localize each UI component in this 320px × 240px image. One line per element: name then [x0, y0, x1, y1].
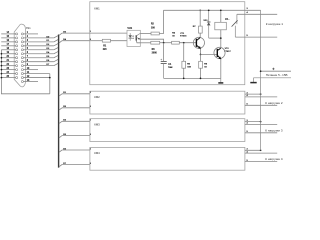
diode VD1 label: [203, 20, 208, 22]
svg-text:VT1: VT1: [180, 33, 185, 35]
module KM1 pin 5 load wire: [235, 35, 277, 37]
svg-text:220: 220: [103, 49, 108, 51]
bus exit wire D1: [59, 92, 90, 96]
resistor R4 labels: [172, 32, 176, 38]
ground bus wire (pins 18-25 loop under connector): [1, 50, 50, 94]
svg-text:КМ4: КМ4: [94, 151, 100, 155]
power label Pitanie 5...15V: [266, 73, 288, 77]
svg-text:К нагрузке 4: К нагрузке 4: [265, 157, 283, 161]
svg-text:R5: R5: [187, 64, 191, 66]
module KM2 label: [94, 95, 100, 99]
load label K nagruzke 2: [265, 101, 283, 105]
wire XS1 pin 15 with pin number: [1, 36, 15, 38]
wire R6 to bottom rail: [200, 68, 202, 78]
wire R7 to VT1 collector: [199, 33, 201, 37]
svg-text:VT2: VT2: [225, 48, 230, 50]
svg-text:К нагрузке 2: К нагрузке 2: [265, 101, 283, 105]
capacitor C1: [161, 59, 167, 79]
bus exit wire D2: [59, 120, 90, 124]
resistor R7 label: [193, 26, 197, 28]
relay coil K1 label: [225, 18, 228, 21]
svg-text:К нагрузке 1: К нагрузке 1: [266, 22, 284, 26]
resistor R5 labels: [187, 64, 191, 69]
resistor R6: [199, 61, 203, 68]
phototransistor inside VU1 (with base lead): [136, 34, 140, 43]
wire R4 to VT1 base: [179, 42, 196, 44]
wire VD1 to VT2 collector node: [209, 37, 222, 39]
transistor VT2 labels: [224, 48, 231, 53]
diode VD1 (flyback): [207, 9, 211, 38]
wire XS1 pin 21 with pin number: [1, 60, 15, 62]
svg-text:10К: 10К: [151, 27, 156, 29]
wire XS1 pin 23 with pin number: [1, 68, 15, 70]
wire XS1 pin 7 with pin number: [23, 55, 58, 58]
bus exit wire D4: [59, 38, 90, 43]
wire XS1 pin 9 with pin number: [23, 63, 58, 66]
svg-text:10К: 10К: [187, 67, 191, 69]
relay K1 contact fixed post: [236, 14, 238, 24]
connector XS1 right pin circles (pins 1-13): [21, 33, 23, 83]
svg-text:Питание 5...15В: Питание 5...15В: [266, 73, 288, 77]
wire XS1 pin 5 with pin number: [23, 47, 58, 50]
connector XS1 body (DB25 shell): [14, 24, 25, 87]
resistor R7: [199, 26, 203, 33]
wire node B to R5: [183, 43, 185, 62]
module KM4 outline: [90, 147, 245, 170]
module KM3 label: [94, 122, 100, 126]
module KM4 label: [94, 151, 100, 155]
wire XS1 pin 2 with pin number: [23, 36, 58, 39]
wire XS1 pin 3 with pin number: [23, 40, 58, 43]
resistor R4: [172, 41, 180, 44]
svg-text:R4: R4: [172, 32, 176, 35]
wire XS1 pin 4 with pin number: [23, 43, 58, 46]
bus exit wire D6: [59, 134, 90, 138]
wire KM1 pin1 to optocoupler: [90, 32, 127, 34]
load label K nagruzke 1: [266, 22, 284, 26]
power bus (+) vertical: [260, 10, 262, 150]
wire VU1 collector to R2: [140, 33, 151, 35]
svg-text:КМ1: КМ1: [94, 7, 100, 11]
LED inside optocoupler VU1: [129, 33, 132, 41]
light arrows inside VU1: [132, 35, 135, 39]
wire VU1 emitter to node A: [140, 39, 164, 43]
wire XS1 pin 20 with pin number: [1, 56, 15, 58]
power + sign: [272, 68, 274, 70]
wire VT2 collector up: [220, 38, 222, 48]
wire XS1 pin 6 with pin number: [23, 51, 58, 54]
module KM1 (detailed) outline: [90, 2, 245, 85]
wire R3 to node A: [160, 42, 172, 44]
transistor VT1 (KT315): [193, 37, 204, 49]
resistor R3: [151, 41, 160, 44]
module KM4 pin 3 wire to power bus: [245, 149, 262, 152]
wire XS1 pin 22 with pin number: [1, 64, 15, 66]
svg-text:К1: К1: [225, 18, 228, 21]
module KM4 pin 4 load wire: [245, 150, 277, 153]
resistor R3 labels: [152, 49, 158, 55]
wire VT2 emitter to bottom rail: [220, 59, 222, 79]
module KM4 left pin numbers: [90, 148, 92, 165]
wire XS1 pin 25 with pin number: [1, 76, 15, 78]
connector XS1 left pin circles (pins 14-25): [16, 33, 18, 79]
svg-text:2: 2: [90, 106, 92, 108]
svg-text:XS1: XS1: [26, 27, 31, 30]
optocoupler VU1 label: [127, 27, 132, 30]
node C junction dot (emitter/R6/VT2 base): [200, 54, 202, 56]
wire XS1 pin 18 with pin number: [1, 48, 15, 50]
connector XS1 label: [26, 27, 31, 30]
module KM1 left pin numbers: [90, 31, 92, 41]
bus exit wire D0: [59, 31, 90, 35]
wire XS1 pin 19 with pin number: [1, 52, 15, 54]
svg-text:R1: R1: [103, 46, 107, 48]
svg-text:К нагрузке 3: К нагрузке 3: [265, 129, 283, 133]
svg-text:1: 1: [90, 92, 92, 94]
wire XS1 pin 12 with pin number: [23, 76, 50, 79]
svg-text:С1: С1: [168, 64, 172, 66]
module KM2 outline: [90, 91, 245, 114]
svg-text:4: 4: [247, 11, 249, 14]
transistor VT2 (KT817): [214, 47, 225, 59]
svg-text:КМ2: КМ2: [94, 95, 100, 99]
load label K nagruzke 3: [265, 129, 283, 133]
wire node C to R6: [200, 55, 202, 62]
svg-text:VU1: VU1: [127, 27, 132, 30]
transistor VT1 labels: [180, 33, 187, 38]
wire XS1 pin 13 with pin number: [23, 80, 38, 82]
power - input wire: [254, 77, 292, 79]
module KM2 pin 3 wire to power bus: [245, 92, 262, 95]
wire node C to VT2 base: [201, 54, 218, 56]
junction dots on left ground bus: [1, 53, 3, 79]
resistor R2 labels: [151, 24, 156, 30]
wire XS1 pin 8 with pin number: [23, 59, 58, 62]
bottom rail inside KM1: [164, 78, 221, 80]
wire R5 to bottom rail: [183, 68, 185, 78]
relay K1 contact lower post: [234, 26, 236, 37]
svg-text:3: 3: [247, 8, 249, 10]
svg-text:1мк: 1мк: [168, 67, 173, 69]
module KM3 pin 4 load wire: [245, 122, 277, 125]
bus exit wire D7: [59, 163, 90, 167]
resistor R1: [102, 39, 110, 42]
ground symbol at power input: [250, 78, 256, 83]
svg-text:1: 1: [90, 148, 92, 150]
node A junction dot: [163, 42, 165, 44]
resistor R5: [182, 61, 186, 68]
module KM3 pin 5 load wire: [245, 131, 277, 133]
module KM1 label: [94, 7, 100, 11]
wire XS1 pin 11 with pin number: [23, 72, 49, 74]
module KM1 pin 4 load wire: [237, 11, 277, 14]
wire node A to capacitor C1: [163, 43, 165, 62]
relay K1 contact blade: [232, 20, 238, 26]
wire XS1 pin 10 with pin number: [23, 68, 38, 70]
data bus (thick vertical line): [58, 35, 60, 168]
wire K1 coil to VT2 collector node: [220, 30, 222, 38]
module KM3 left pin numbers: [90, 120, 92, 136]
module KM3 pin 3 wire to power bus: [245, 120, 262, 123]
module KM1 pin 3 wire (top rail to power bus): [245, 8, 261, 10]
node B junction dot (R5 tap): [183, 42, 185, 44]
svg-text:1К: 1К: [172, 36, 175, 38]
bus exit wire D5: [59, 106, 90, 110]
wire XS1 pin 16 with pin number: [1, 40, 15, 42]
svg-text:2: 2: [90, 134, 92, 136]
wire top rail to K1 coil: [220, 9, 222, 22]
bus exit wire D3: [59, 148, 90, 152]
svg-text:R3: R3: [152, 49, 156, 51]
svg-text:200К: 200К: [152, 53, 158, 55]
power + input wire: [260, 70, 292, 72]
top rail (+) inside KM1: [164, 9, 245, 11]
wire XS1 pin 1 with pin number: [23, 32, 38, 34]
module KM2 left pin numbers: [90, 92, 92, 108]
ground symbol inside KM1: [218, 78, 223, 83]
svg-text:КТ315: КТ315: [180, 36, 187, 38]
wire R2 to top rail: [159, 10, 163, 33]
relay coil K1 box: [215, 22, 227, 30]
optocoupler U1 (VU1) box: [127, 30, 140, 46]
wire KM1 pin2 to R1: [90, 40, 103, 42]
resistor R1 labels: [103, 46, 108, 51]
wire VU1 base to R3: [140, 42, 151, 44]
svg-text:1К: 1К: [204, 67, 207, 69]
bus entry labels D0-D7: [46, 36, 50, 66]
svg-text:1: 1: [90, 120, 92, 122]
module KM2 pin 5 load wire: [245, 104, 277, 106]
module KM4 pin 5 load wire: [245, 160, 277, 162]
wire XS1 pin 17 with pin number: [1, 44, 15, 46]
svg-text:R2: R2: [151, 24, 155, 26]
wire XS1 pin 14 with pin number: [1, 31, 15, 34]
resistor R2: [151, 32, 159, 35]
wire R7 to top rail: [199, 9, 201, 26]
wire VT1 emitter down: [200, 49, 202, 55]
relay K1 mechanical link dash: [228, 19, 230, 21]
svg-text:2: 2: [90, 163, 92, 165]
wire XS1 pin 24 with pin number: [1, 71, 15, 74]
capacitor C1 labels: [168, 64, 173, 69]
load label K nagruzke 4: [265, 157, 283, 161]
module KM3 outline: [90, 119, 245, 142]
wire R1 to optocoupler: [111, 40, 128, 42]
svg-text:R6: R6: [204, 64, 208, 66]
svg-text:КМ3: КМ3: [94, 122, 100, 126]
svg-text:R7: R7: [193, 26, 197, 28]
resistor R6 labels: [204, 64, 208, 69]
module KM2 pin 4 load wire: [245, 94, 277, 97]
